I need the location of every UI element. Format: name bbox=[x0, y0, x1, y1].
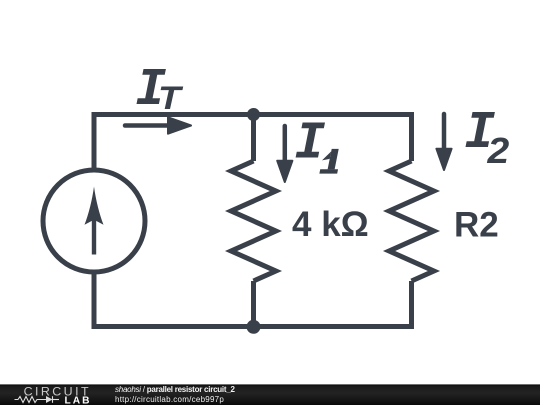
footer bar bbox=[0, 384, 540, 405]
wire: top rail from source top-left corner to R2 top, with drop to R2 bbox=[94, 115, 412, 171]
svg-text:4 kΩ: 4 kΩ bbox=[292, 205, 369, 244]
current source IS: circle body bbox=[43, 170, 145, 272]
node: bottom junction dot bbox=[247, 320, 261, 334]
svg-text:R2: R2 bbox=[454, 206, 499, 245]
current arrow I1 (downward, left of R1) bbox=[277, 126, 292, 182]
current source IS: internal up arrow bbox=[85, 187, 104, 255]
svg-text:2: 2 bbox=[486, 131, 509, 172]
resistor R2: zigzag body bbox=[389, 161, 434, 281]
label I2: big italic I bbox=[466, 112, 495, 147]
current arrow IT (rightward, above source, under top rail) bbox=[125, 117, 191, 133]
svg-text:LAB: LAB bbox=[65, 395, 92, 405]
svg-text:shaohsi / parallel resistor ci: shaohsi / parallel resistor circuit_2 bbox=[115, 385, 236, 394]
wire: riser from resistor R1 bottom to bottom rail bbox=[251, 281, 256, 327]
CircuitLab logo: resistor-diode squiggle bbox=[15, 396, 60, 403]
wire: drop from top rail to resistor R1 top bbox=[251, 115, 256, 162]
label I1: big italic I bbox=[296, 123, 325, 158]
current arrow I2 (downward, left of R2) bbox=[436, 114, 451, 170]
label IT: big italic I bbox=[137, 69, 166, 104]
svg-text:http://circuitlab.com/ceb997p: http://circuitlab.com/ceb997p bbox=[115, 395, 224, 404]
svg-text:T: T bbox=[158, 80, 184, 116]
wire: bottom rail from source bottom-left corner to R2 bottom bbox=[94, 272, 412, 327]
label I1: subscript 1 bbox=[319, 149, 342, 174]
node: top junction dot bbox=[247, 108, 260, 121]
resistor R1 (4 kOhm): zigzag body bbox=[231, 161, 276, 281]
